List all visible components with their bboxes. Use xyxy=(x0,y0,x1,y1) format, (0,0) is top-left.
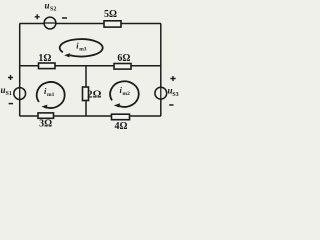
voltage source uS1 xyxy=(1,75,26,104)
resistor 2ohm vertical xyxy=(83,87,102,101)
svg-text:4Ω: 4Ω xyxy=(114,121,127,132)
svg-text:S3: S3 xyxy=(172,92,178,98)
svg-text:S2: S2 xyxy=(50,7,56,13)
svg-text:2Ω: 2Ω xyxy=(87,88,102,100)
resistor 4ohm xyxy=(112,114,130,132)
mesh current im1 xyxy=(37,82,65,109)
voltage source uS2 xyxy=(35,1,67,29)
svg-text:1Ω: 1Ω xyxy=(38,53,51,64)
mesh current im3 xyxy=(60,39,103,57)
svg-text:m3: m3 xyxy=(79,47,87,53)
svg-text:5Ω: 5Ω xyxy=(104,9,117,20)
wire left xyxy=(19,24,21,117)
wire middle horizontal xyxy=(20,65,161,67)
svg-text:3Ω: 3Ω xyxy=(39,119,52,130)
svg-text:S1: S1 xyxy=(6,91,12,97)
svg-text:m1: m1 xyxy=(47,92,55,98)
svg-text:u: u xyxy=(45,1,50,11)
resistor 3ohm xyxy=(38,113,54,130)
mesh current im2 xyxy=(110,81,139,107)
resistor 6ohm xyxy=(114,53,131,69)
svg-text:m2: m2 xyxy=(123,91,131,97)
wire middle vertical xyxy=(85,66,87,116)
svg-text:6Ω: 6Ω xyxy=(117,53,130,64)
resistor 1ohm xyxy=(38,53,55,69)
wire right xyxy=(160,24,162,117)
wire top xyxy=(20,23,162,25)
wire bottom xyxy=(20,115,162,117)
voltage source uS3 xyxy=(155,76,179,105)
resistor 5ohm xyxy=(104,9,121,27)
